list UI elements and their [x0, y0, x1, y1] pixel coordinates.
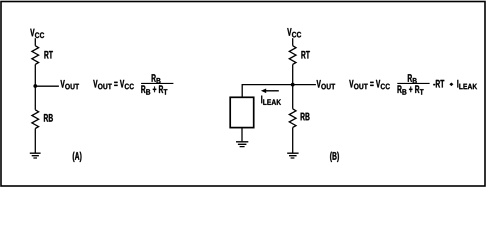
wire A4 node to RB	[34, 86, 36, 110]
resistor RT (B)	[289, 46, 296, 65]
wire B6 box to ground	[241, 128, 243, 142]
caption (B)	[330, 152, 339, 162]
wire B1 Vcc to RT	[292, 38, 294, 46]
wire B5 node to RB	[292, 85, 294, 109]
node A junction dot	[33, 84, 37, 88]
node B junction dot	[291, 83, 295, 87]
formula A fraction numerator RB	[152, 74, 161, 83]
formula B: Vout = Vcc	[349, 80, 390, 89]
ground (A)	[30, 153, 41, 158]
Vcc label (A)	[30, 29, 44, 38]
formula B fraction bar	[397, 82, 429, 84]
formula A: Vout = Vcc	[93, 80, 134, 89]
leakage current arrow	[261, 89, 279, 94]
wire B3 node to Vout	[293, 84, 316, 86]
wire B2 RT to node	[292, 64, 294, 84]
formula B multiplication dot	[449, 83, 453, 87]
ground (B)	[287, 153, 298, 158]
RB value label (A)	[44, 114, 53, 122]
RT value label (B)	[301, 51, 309, 59]
wire A5 RB to ground	[34, 129, 36, 153]
wire A1 Vcc to RT	[34, 38, 36, 46]
RB value label (B)	[301, 113, 310, 121]
Ileak current label	[261, 96, 281, 105]
caption (A)	[73, 152, 82, 162]
resistor RB (B)	[289, 109, 296, 128]
ground (leakage box)	[236, 142, 248, 147]
formula B fraction denominator RB + RT	[398, 85, 424, 94]
Vcc label (B)	[287, 28, 301, 37]
formula B term Ileak	[457, 80, 477, 89]
leakage source box	[230, 97, 254, 127]
wire B4 node to leakage box	[242, 85, 293, 98]
wire A2 RT to node	[34, 64, 36, 86]
wire A3 node to Vout	[35, 85, 59, 87]
wire B7 RB to ground	[292, 128, 294, 153]
formula B fraction numerator RB	[408, 74, 417, 83]
formula A fraction denominator RB + RT	[141, 85, 167, 94]
resistor RB (A)	[32, 110, 39, 129]
resistor RT (A)	[32, 46, 39, 65]
Vout node label (A)	[60, 80, 79, 89]
RT value label (A)	[44, 51, 52, 59]
formula B term -RT	[433, 80, 444, 88]
Vout node label (B)	[317, 80, 336, 89]
formula A fraction bar	[141, 82, 173, 84]
